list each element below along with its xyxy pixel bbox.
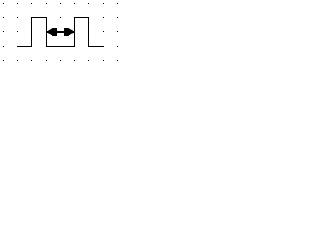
mid baseline — [46, 46, 75, 47]
left arrowhead (stepped) — [48, 31, 49, 34]
pulse 1 top — [31, 17, 47, 18]
right baseline — [88, 46, 104, 47]
pulse 2 rising edge — [74, 17, 75, 47]
right arrowhead (stepped) — [64, 28, 68, 36]
waveform: pulse train — [17, 17, 104, 47]
double-headed width arrow — [47, 28, 75, 36]
left baseline — [17, 46, 32, 47]
pulse 1 falling edge — [46, 17, 47, 47]
pulse 2 top — [74, 17, 89, 18]
pulse 2 falling edge — [88, 17, 89, 47]
arrow shaft — [47, 31, 75, 33]
pulse-train timing diagram — [0, 0, 122, 64]
pulse 1 rising edge — [31, 17, 32, 47]
grid dots — [3, 3, 118, 61]
